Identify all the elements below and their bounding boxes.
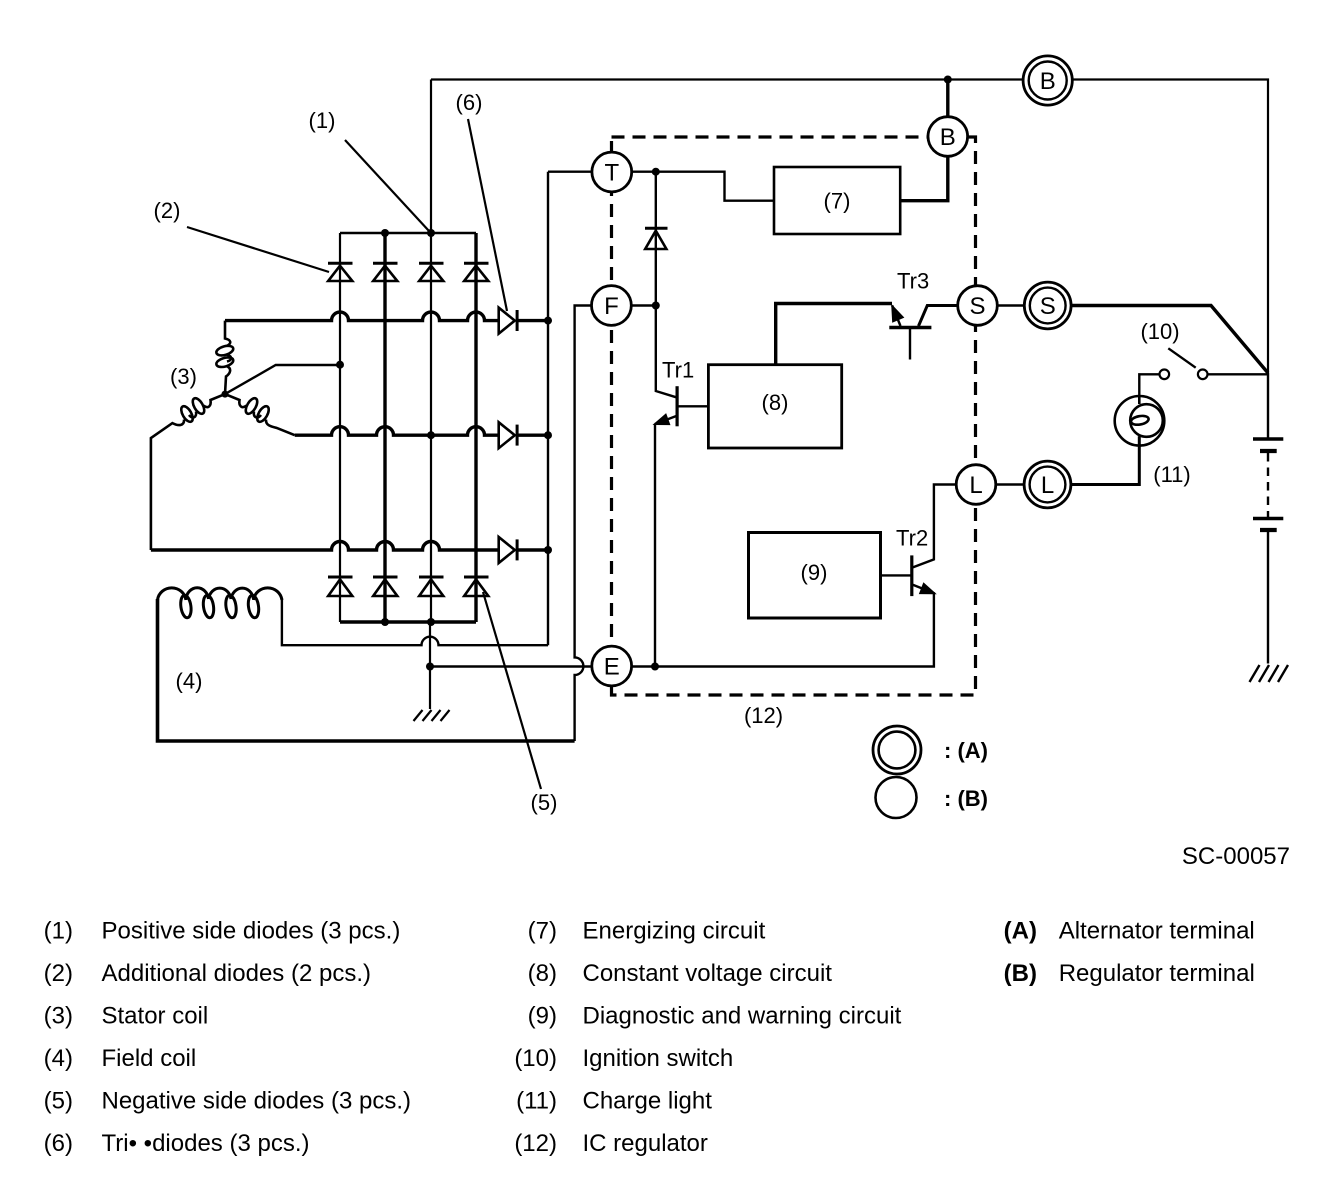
node B+ tap [944, 76, 952, 84]
svg-text:(10): (10) [514, 1045, 557, 1072]
terminal S (regulator) [958, 286, 998, 326]
energizing circuit box (7) [774, 167, 900, 234]
parts list column 3 [1004, 918, 1255, 988]
wire E row [430, 594, 934, 667]
svg-text:(1): (1) [309, 108, 336, 133]
svg-text:(8): (8) [528, 960, 557, 987]
svg-text:Positive side diodes (3 pcs.): Positive side diodes (3 pcs.) [102, 918, 401, 945]
svg-text:(3): (3) [44, 1003, 73, 1030]
wire S double to ignition switch diagonal [1071, 306, 1268, 374]
node phase2 col3 [427, 431, 435, 439]
negative diode D5 (col3 bottom) [419, 577, 444, 596]
parts list column 1 [44, 918, 411, 1158]
wire rectifier column 1 [339, 233, 341, 622]
svg-text:B: B [1040, 68, 1056, 95]
additional diode D-a1 (col1 top) [328, 263, 353, 281]
label (2) with leader [187, 227, 329, 272]
negative diode D4 (col2 bottom) [373, 577, 398, 596]
positive diode D3 (col4 top) [464, 263, 489, 281]
wire top B+ rail [431, 80, 1268, 374]
wire stator phase 2 row [295, 427, 499, 436]
svg-text:B: B [940, 124, 956, 151]
svg-text:Negative side diodes (3 pcs.): Negative side diodes (3 pcs.) [102, 1088, 412, 1115]
parts list column 2 [514, 918, 901, 1158]
wire neutral to column 1 [225, 365, 340, 394]
trio diode D7 (row1) [499, 308, 517, 334]
wire trio bus vertical [547, 172, 549, 646]
stator coil winding 2 (left) [151, 394, 225, 550]
svg-text:(2): (2) [44, 960, 73, 987]
svg-text:(4): (4) [44, 1045, 73, 1072]
svg-text:F: F [604, 293, 619, 320]
svg-text:Additional diodes (2 pcs.): Additional diodes (2 pcs.) [102, 960, 371, 987]
constant voltage circuit box (8) [708, 365, 841, 448]
svg-text:Stator coil: Stator coil [102, 1003, 209, 1030]
terminal L (regulator) [956, 465, 996, 505]
node top rail col2 [381, 229, 389, 237]
ground (alternator) [414, 710, 450, 721]
charge light bulb (11) [1115, 396, 1165, 446]
svg-text:(9): (9) [801, 560, 828, 585]
legend symbol (B) single circle [876, 777, 917, 818]
wire switch to battery [1208, 373, 1269, 375]
node top rail col3 [427, 229, 435, 237]
wire field coil left + bottom to F riser [158, 599, 575, 741]
stator coil winding 3 (right) [225, 394, 295, 435]
node stator star point [222, 391, 229, 398]
stator coil winding 1 (vertical) [215, 321, 234, 395]
svg-text:T: T [604, 160, 619, 187]
wire bridge top drop [430, 80, 432, 234]
svg-text:Tri• •diodes (3 pcs.): Tri• •diodes (3 pcs.) [102, 1130, 310, 1157]
battery [1253, 373, 1283, 664]
svg-text:Alternator terminal: Alternator terminal [1059, 918, 1255, 945]
wire T right to energizing circuit [632, 172, 774, 201]
node trio bus row2 [544, 431, 552, 439]
label (5) with leader [483, 592, 541, 789]
svg-text:Ignition switch: Ignition switch [583, 1045, 734, 1072]
node E right [651, 663, 659, 671]
additional diode D-a2 (col1 bottom) [328, 577, 353, 596]
terminal B (alternator, double) [1023, 56, 1072, 105]
svg-text:(12): (12) [744, 703, 783, 728]
diagnostic and warning circuit box (9) [749, 533, 881, 619]
node trio bus row1 [544, 317, 552, 325]
field coil L2 [158, 588, 282, 619]
label (6) with leader [468, 119, 507, 311]
trio diode D9 (row3) [499, 537, 517, 563]
svg-text:(3): (3) [170, 364, 197, 389]
svg-text:(5): (5) [44, 1088, 73, 1115]
svg-text:(8): (8) [762, 390, 789, 415]
svg-text:(7): (7) [528, 918, 557, 945]
wire stator phase 1 row [225, 312, 499, 321]
flyback diode D10 (in regulator) [645, 228, 668, 249]
svg-text:S: S [969, 293, 985, 320]
svg-text:Regulator terminal: Regulator terminal [1059, 960, 1255, 987]
svg-text:: (A): : (A) [944, 738, 988, 763]
svg-text:(9): (9) [528, 1003, 557, 1030]
wire T left [548, 170, 592, 172]
svg-text:(4): (4) [176, 669, 203, 694]
wire trio output row 2 [517, 434, 548, 437]
svg-text:Energizing circuit: Energizing circuit [583, 918, 766, 945]
wire box8 to Tr3 [776, 304, 892, 365]
terminal T [592, 152, 632, 192]
negative diode D6 (col4 bottom) [464, 577, 489, 596]
terminal S (alternator, double) [1024, 282, 1071, 329]
svg-text:(A): (A) [1004, 918, 1037, 945]
wire ground stem [429, 667, 431, 710]
svg-text:(11): (11) [516, 1088, 557, 1115]
node T row diode tap [652, 168, 660, 176]
wire rectifier column 3 [430, 233, 432, 622]
node F row diode tap [652, 302, 660, 310]
IC regulator dashed box (12) [612, 137, 976, 695]
wire bridge bottom rail [340, 620, 476, 623]
wire trio output row 1 [517, 319, 548, 322]
legend symbol (A) double circle [873, 726, 921, 774]
wire bridge top rail [340, 232, 476, 234]
wire trio output row 3 [517, 548, 548, 551]
svg-text:(2): (2) [154, 198, 181, 223]
node ground junction [426, 663, 434, 671]
wire flyback diode vertical T-F [656, 172, 677, 398]
wire B terminal drop [900, 80, 948, 201]
terminal L (alternator, double) [1024, 461, 1071, 508]
svg-text:Diagnostic and warning circuit: Diagnostic and warning circuit [583, 1003, 902, 1030]
terminal E [592, 646, 632, 686]
svg-text:(B): (B) [1004, 960, 1037, 987]
svg-text:(12): (12) [514, 1130, 557, 1157]
svg-text:(11): (11) [1153, 462, 1191, 487]
svg-text:L: L [1041, 472, 1054, 499]
svg-text:(10): (10) [1140, 319, 1179, 344]
wire Tr1 emitter to E row [654, 424, 656, 666]
wire L single to L double [996, 483, 1024, 486]
wire lamp bottom to L row [1071, 436, 1139, 484]
svg-text:Tr1: Tr1 [662, 358, 694, 383]
positive diode D2 (col3 top) [419, 263, 444, 281]
terminal B (regulator) [928, 117, 968, 157]
node bottom rail col2 [381, 618, 389, 626]
svg-text:SC-00057: SC-00057 [1182, 843, 1290, 870]
svg-text:Tr2: Tr2 [896, 526, 928, 551]
transistor Tr2 [881, 555, 935, 596]
ignition switch (10) [1160, 348, 1208, 379]
transistor Tr1 [655, 386, 709, 426]
trio diode D8 (row2) [499, 422, 517, 448]
ground (battery) [1250, 665, 1289, 682]
node neutral col1 [336, 361, 344, 369]
node bottom rail col3 [427, 618, 435, 626]
svg-text:(5): (5) [531, 790, 558, 815]
node trio bus row3 [544, 546, 552, 554]
wire F right [631, 304, 656, 306]
svg-text:(6): (6) [44, 1130, 73, 1157]
svg-text:(7): (7) [824, 189, 851, 214]
svg-text:(6): (6) [456, 90, 483, 115]
wire rectifier column 2 [383, 233, 386, 622]
wire bottom rail to ground junction (hopped by field wire) [429, 622, 431, 667]
wire stator phase 3 row [151, 542, 499, 551]
svg-text:IC regulator: IC regulator [583, 1130, 708, 1157]
wire F riser vertical (hops E row) [575, 306, 592, 742]
wire L left to Tr2 collector [913, 485, 956, 568]
svg-text:: (B): : (B) [944, 786, 988, 811]
label (1) with leader [345, 140, 429, 231]
svg-text:(1): (1) [44, 918, 73, 945]
svg-text:E: E [604, 654, 620, 681]
wire S single to S double [997, 304, 1024, 307]
svg-text:Constant voltage circuit: Constant voltage circuit [583, 960, 833, 987]
svg-text:Charge light: Charge light [583, 1088, 713, 1115]
wire rectifier column 4 [474, 233, 477, 622]
wire switch to lamp [1139, 374, 1159, 395]
positive diode D1 (col2 top) [373, 263, 398, 281]
svg-text:Tr3: Tr3 [897, 269, 929, 294]
wire trio bus to field coil [282, 598, 548, 645]
svg-text:L: L [969, 472, 982, 499]
svg-text:S: S [1040, 293, 1056, 320]
svg-text:Field coil: Field coil [102, 1045, 197, 1072]
transistor Tr3 [889, 306, 957, 360]
terminal F [592, 286, 632, 326]
